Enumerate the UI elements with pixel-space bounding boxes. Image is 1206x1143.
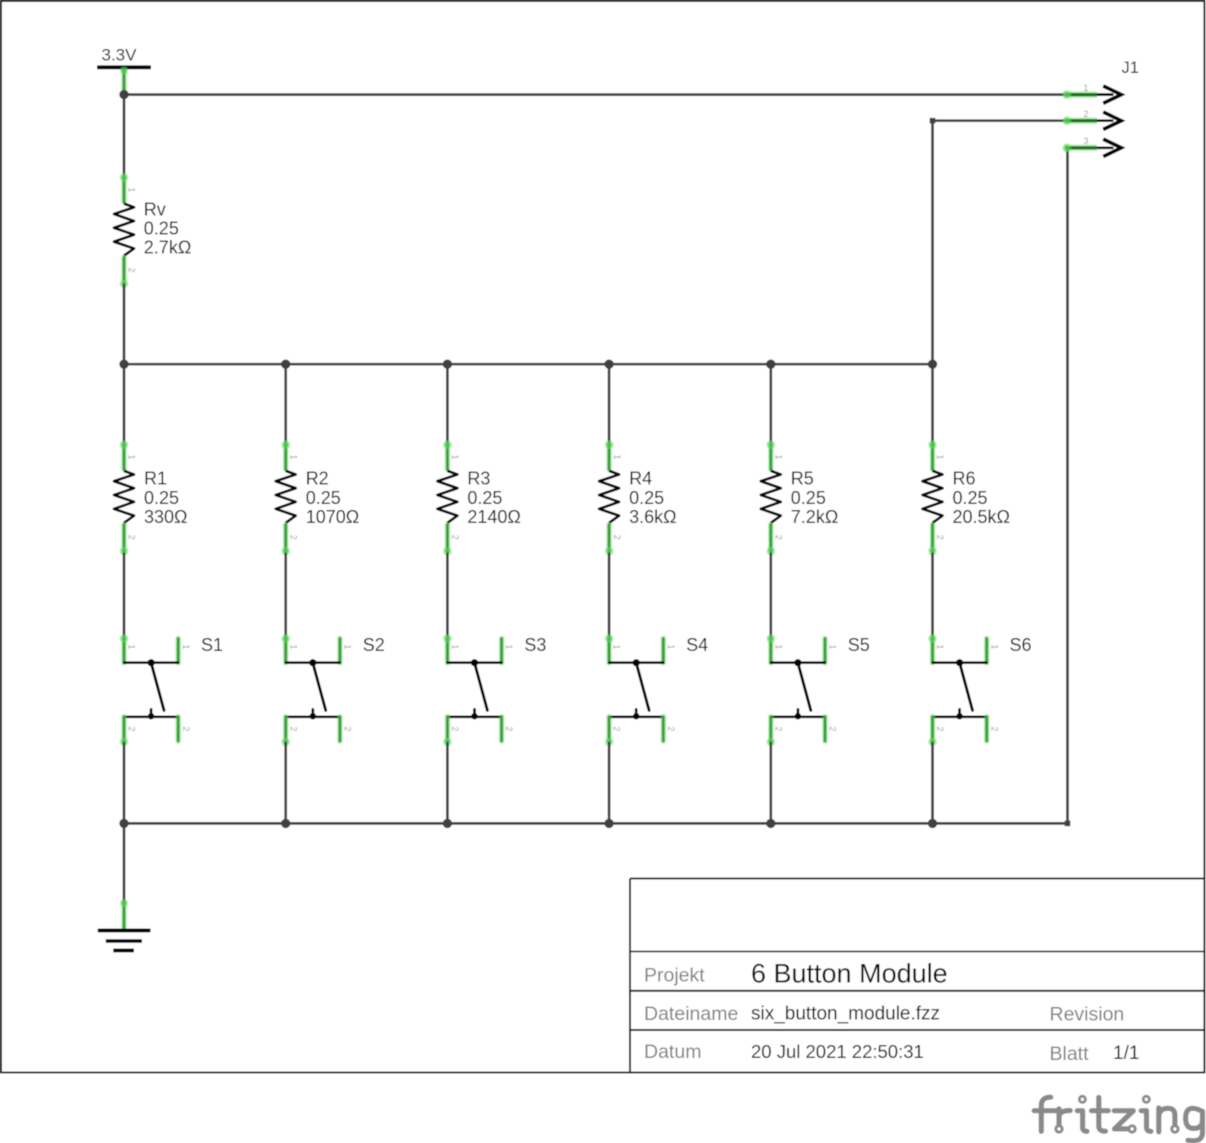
wire bottom bus to ground — [123, 823, 126, 902]
connector J1 pin 1 — [1063, 83, 1122, 103]
title block filename row — [644, 1003, 1124, 1026]
svg-text:1: 1 — [989, 644, 999, 649]
svg-text:S2: S2 — [363, 635, 385, 655]
svg-text:S4: S4 — [686, 635, 708, 655]
wire S4 pin 2 to bottom bus — [608, 742, 611, 823]
svg-text:330Ω: 330Ω — [144, 507, 188, 527]
label S1 — [201, 635, 223, 655]
svg-text:2: 2 — [127, 535, 137, 540]
pushbutton S5 — [767, 0, 838, 746]
svg-text:1: 1 — [935, 644, 945, 649]
svg-text:0.25: 0.25 — [306, 488, 341, 508]
pushbutton S6 — [928, 0, 999, 746]
svg-text:1: 1 — [288, 644, 298, 649]
svg-text:Blatt: Blatt — [1050, 1043, 1090, 1065]
svg-text:20.5kΩ: 20.5kΩ — [953, 507, 1011, 527]
svg-text:2: 2 — [935, 726, 945, 731]
wire R1 pin 2 to S1 pin 1 — [123, 553, 126, 639]
junction resistor bus node R3 — [443, 360, 452, 369]
wire S5 pin 2 to bottom bus — [769, 742, 772, 823]
label S5 — [848, 635, 870, 655]
svg-text:1: 1 — [1083, 83, 1088, 93]
svg-text:2: 2 — [127, 268, 137, 273]
svg-text:2: 2 — [288, 535, 298, 540]
svg-text:Revision: Revision — [1050, 1004, 1125, 1026]
svg-text:3: 3 — [1083, 136, 1088, 146]
svg-text:6 Button Module: 6 Button Module — [751, 959, 948, 989]
svg-text:2: 2 — [935, 535, 945, 540]
svg-text:0.25: 0.25 — [144, 488, 179, 508]
svg-text:1: 1 — [773, 644, 783, 649]
svg-text:S6: S6 — [1010, 635, 1032, 655]
svg-text:1: 1 — [127, 455, 137, 460]
svg-text:1: 1 — [612, 455, 622, 460]
junction bottom bus node S1 — [119, 819, 128, 828]
wire bus to R6 pin 1 — [931, 364, 934, 447]
svg-text:1: 1 — [612, 644, 622, 649]
svg-text:2: 2 — [1083, 109, 1088, 119]
svg-text:1070Ω: 1070Ω — [306, 507, 360, 527]
label R2 0.25 1070Ω — [306, 469, 360, 527]
svg-text:2140Ω: 2140Ω — [467, 507, 521, 527]
ground — [98, 899, 151, 950]
svg-text:1: 1 — [127, 187, 137, 192]
svg-text:1: 1 — [127, 644, 137, 649]
wire bus to R3 pin 1 — [446, 364, 449, 447]
svg-text:S5: S5 — [848, 635, 870, 655]
resistor R5 — [761, 440, 784, 555]
title block frame — [630, 879, 1204, 1073]
svg-text:0.25: 0.25 — [953, 488, 988, 508]
svg-text:Projekt: Projekt — [644, 965, 705, 987]
junction bottom bus node S5 — [766, 819, 775, 828]
label R3 0.25 2140Ω — [467, 469, 521, 527]
label R6 0.25 20.5kΩ — [953, 469, 1011, 527]
fritzing logo — [1034, 1096, 1202, 1141]
connector J1 pin 2 — [1063, 109, 1122, 129]
svg-text:S3: S3 — [524, 635, 546, 655]
resistor R4 — [599, 440, 622, 555]
svg-text:R1: R1 — [144, 469, 167, 489]
svg-text:2: 2 — [450, 726, 460, 731]
wire bottom bus — [124, 822, 1068, 825]
wire R4 pin 2 to S4 pin 1 — [608, 553, 611, 639]
junction bottom bus corner — [1065, 821, 1071, 827]
svg-text:2: 2 — [181, 726, 191, 731]
wire J1 pin 2 branch horizontal — [933, 119, 1067, 122]
svg-text:S1: S1 — [201, 635, 223, 655]
label S6 — [1010, 635, 1032, 655]
wire top bus 3.3V to J1 pin 1 — [124, 93, 1067, 96]
wire R6 pin 2 to S6 pin 1 — [931, 553, 934, 639]
junction resistor bus node R4 — [604, 360, 613, 369]
pushbutton S3 — [443, 0, 514, 746]
svg-text:1: 1 — [288, 455, 298, 460]
svg-text:six_button_module.fzz: six_button_module.fzz — [751, 1004, 940, 1025]
svg-text:Rv: Rv — [144, 199, 166, 219]
label R5 0.25 7.2kΩ — [791, 469, 838, 527]
svg-text:2: 2 — [773, 726, 783, 731]
svg-text:0.25: 0.25 — [467, 488, 502, 508]
wire resistor bus — [124, 363, 933, 366]
svg-text:1: 1 — [828, 644, 838, 649]
junction bottom bus node S3 — [443, 819, 452, 828]
label R4 0.25 3.6kΩ — [629, 469, 676, 527]
svg-text:3.3V: 3.3V — [102, 45, 138, 64]
svg-text:0.25: 0.25 — [791, 488, 826, 508]
junction bottom bus node S2 — [281, 819, 290, 828]
power symbol 3.3V — [97, 45, 151, 92]
wire J1 pin 2 branch vertical to resistor bus — [931, 121, 934, 365]
connector J1 pin 3 — [1063, 136, 1122, 156]
wire S2 pin 2 to bottom bus — [284, 742, 287, 823]
wire bus to R2 pin 1 — [284, 364, 287, 447]
resistor R3 — [437, 440, 460, 555]
svg-text:1: 1 — [504, 644, 514, 649]
svg-text:2: 2 — [989, 726, 999, 731]
junction 3.3V node — [119, 90, 128, 99]
title block date row — [644, 1041, 1139, 1065]
wire J1 pin 3 riser from bottom bus — [1066, 148, 1069, 824]
svg-text:1: 1 — [774, 455, 784, 460]
wire R5 pin 2 to S5 pin 1 — [769, 553, 772, 639]
svg-text:3.6kΩ: 3.6kΩ — [629, 507, 676, 527]
junction J1 pin 2 branch — [930, 118, 936, 124]
pushbutton S1 — [120, 0, 191, 746]
resistor R2 — [276, 440, 299, 555]
svg-text:1: 1 — [450, 644, 460, 649]
label S3 — [524, 635, 546, 655]
svg-text:2: 2 — [828, 726, 838, 731]
svg-text:R6: R6 — [953, 469, 976, 489]
resistor R1 — [114, 440, 137, 555]
svg-text:2: 2 — [450, 535, 460, 540]
svg-text:J1: J1 — [1122, 59, 1139, 77]
svg-text:2: 2 — [612, 535, 622, 540]
svg-text:R2: R2 — [306, 469, 329, 489]
svg-text:2: 2 — [288, 726, 298, 731]
junction bottom bus node S4 — [604, 819, 613, 828]
title block project row — [644, 959, 948, 989]
svg-text:2: 2 — [666, 726, 676, 731]
pushbutton S2 — [281, 0, 352, 746]
label R1 0.25 330Ω — [144, 469, 188, 527]
junction resistor bus node R1 — [119, 360, 128, 369]
junction resistor bus node R6 — [928, 360, 937, 369]
junction resistor bus node R5 — [766, 360, 775, 369]
svg-text:Dateiname: Dateiname — [644, 1003, 738, 1025]
svg-text:0.25: 0.25 — [629, 488, 664, 508]
svg-text:2.7kΩ: 2.7kΩ — [144, 238, 191, 258]
wire R2 pin 2 to S2 pin 1 — [284, 553, 287, 639]
svg-text:2: 2 — [127, 726, 137, 731]
wire S1 pin 2 to bottom bus — [123, 742, 126, 823]
wire bus to R4 pin 1 — [608, 364, 611, 447]
svg-text:1: 1 — [666, 644, 676, 649]
svg-text:R4: R4 — [629, 469, 652, 489]
label J1 — [1122, 59, 1139, 77]
resistor Rv — [114, 173, 137, 288]
svg-text:1: 1 — [343, 644, 353, 649]
pushbutton S4 — [605, 0, 676, 746]
junction bottom bus node S6 — [928, 819, 937, 828]
svg-text:2: 2 — [612, 726, 622, 731]
svg-text:0.25: 0.25 — [144, 219, 179, 239]
svg-text:R5: R5 — [791, 469, 814, 489]
wire R3 pin 2 to S3 pin 1 — [446, 553, 449, 639]
wire 3.3V node to Rv pin 1 — [123, 95, 126, 176]
label S2 — [363, 635, 385, 655]
label S4 — [686, 635, 708, 655]
svg-text:1/1: 1/1 — [1113, 1043, 1139, 1064]
svg-text:2: 2 — [774, 535, 784, 540]
svg-text:2: 2 — [504, 726, 514, 731]
wire bus to R5 pin 1 — [769, 364, 772, 447]
wire S3 pin 2 to bottom bus — [446, 742, 449, 823]
label Rv 0.25 2.7kΩ — [144, 199, 191, 257]
junction resistor bus node R2 — [281, 360, 290, 369]
svg-text:20 Jul 2021 22:50:31: 20 Jul 2021 22:50:31 — [751, 1041, 924, 1062]
svg-text:1: 1 — [181, 644, 191, 649]
wire Rv pin 2 to resistor bus — [123, 284, 126, 364]
svg-text:Datum: Datum — [644, 1041, 701, 1063]
svg-text:2: 2 — [343, 726, 353, 731]
resistor R6 — [923, 440, 946, 555]
svg-text:R3: R3 — [467, 469, 490, 489]
svg-text:7.2kΩ: 7.2kΩ — [791, 507, 838, 527]
svg-text:1: 1 — [935, 455, 945, 460]
wire S6 pin 2 to bottom bus — [931, 742, 934, 823]
svg-text:1: 1 — [450, 455, 460, 460]
wire bus to R1 pin 1 — [123, 364, 126, 447]
